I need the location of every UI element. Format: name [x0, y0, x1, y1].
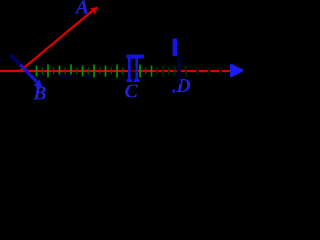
- number line (red axis): [0, 70, 232, 72]
- faint smudge 1 below line: [58, 75, 74, 79]
- faint smudge 2 below line: [84, 75, 91, 79]
- red ray arrowhead: [90, 7, 99, 15]
- blue transversal segment through O: [11, 55, 38, 82]
- blue transversal arrowhead: [34, 79, 43, 88]
- svg-text:A: A: [74, 0, 89, 18]
- svg-text:B: B: [32, 82, 46, 104]
- vertical stroke marker above D (digit-one-like bar): [173, 39, 177, 57]
- dark navy bar crossing line at D: [177, 56, 181, 84]
- dim ticks right of x=152: [157, 66, 186, 77]
- small blue speck left of D: [172, 89, 175, 93]
- Pi-like marker frame crossing the line at C: [127, 55, 145, 83]
- major tick marks group (bright green): [37, 65, 152, 78]
- dark start of blue transversal: [11, 55, 21, 65]
- dark ticks on right segment (create gaps in red line): [198, 67, 221, 75]
- red ray O to A: [20, 10, 94, 72]
- svg-text:C: C: [125, 80, 139, 102]
- axis right arrowhead (blue): [232, 65, 242, 75]
- minor ticks dim: [42, 68, 146, 75]
